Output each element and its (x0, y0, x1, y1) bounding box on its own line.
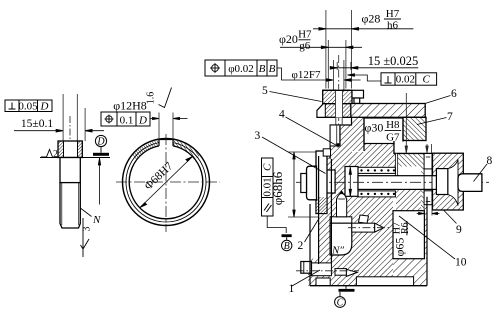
body band under phi30 window (364, 144, 394, 159)
svg-text:B: B (259, 63, 266, 75)
phi30 bore window (364, 118, 403, 144)
body band above sleeve (345, 152, 395, 167)
stud bore white slot (336, 90, 343, 118)
vertical line through plate with down arrow (405, 93, 407, 153)
svg-text:2: 2 (298, 240, 304, 252)
funnel bore white (448, 160, 458, 206)
part number labels and leaders (262, 92, 487, 287)
svg-text:D: D (40, 101, 49, 113)
shaft neck at left (327, 170, 336, 193)
body left wall (319, 156, 332, 264)
shaft end cap (307, 166, 317, 200)
svg-text:0.01: 0.01 (262, 177, 274, 196)
svg-text:C: C (337, 298, 344, 309)
screw shank (352, 223, 375, 232)
svg-text:H7: H7 (298, 29, 312, 41)
body band below lower dots row (396, 189, 423, 210)
flange upper block (323, 90, 352, 103)
svg-text:φ12F7: φ12F7 (292, 69, 321, 81)
label 1 (292, 270, 320, 286)
svg-text:1.6: 1.6 (146, 92, 157, 105)
circle centre lines (116, 181, 220, 183)
right tab (352, 90, 364, 98)
label 10 (399, 216, 455, 259)
body mass below shaft left of phi65 window (352, 197, 393, 277)
bore circle (129, 146, 203, 219)
body bottom-right mass (393, 259, 427, 286)
svg-text:g6: g6 (299, 40, 311, 52)
taper pin part4 bore (330, 125, 340, 148)
leader N (80, 208, 91, 217)
pin body (60, 158, 80, 183)
dimension 15 ±0.025 (330, 67, 418, 70)
screw9 upper extension with down arrow (426, 144, 432, 153)
body top-left outline (330, 118, 364, 159)
main axis centre line (296, 181, 489, 183)
vertical reference line with up arrow (98, 158, 100, 205)
label 5 (270, 92, 322, 102)
svg-text:1: 1 (289, 283, 295, 295)
label 7 (417, 118, 447, 125)
svg-text:C: C (262, 163, 274, 171)
label 4 (286, 117, 337, 146)
svg-text:h6: h6 (387, 20, 399, 32)
step recess right of part 7 (394, 141, 433, 154)
svg-text:H7: H7 (386, 8, 400, 20)
tolerance frame perpendicularity 0.05 D (5, 100, 52, 112)
label 3 (262, 137, 326, 174)
body upper-left block (330, 118, 364, 159)
svg-text:N: N (92, 214, 101, 226)
svg-text:H8: H8 (386, 119, 400, 131)
cap small hub (301, 174, 307, 193)
keyway hatch wedges (annulus sectors) (132, 140, 200, 160)
svg-text:φ65: φ65 (393, 238, 407, 257)
svg-text:3: 3 (255, 130, 261, 142)
stud hole lines through gap (335, 117, 337, 125)
svg-text:15 ±0.025: 15 ±0.025 (368, 54, 419, 68)
sleeve flange gap lines (394, 153, 396, 175)
outer circle (123, 139, 210, 226)
datum B (282, 234, 292, 252)
flange lower block (317, 104, 352, 118)
label 8 (474, 164, 488, 182)
svg-text:0.1: 0.1 (120, 115, 134, 127)
keyway width dimension arrows (151, 117, 188, 119)
phi65 bore window (393, 211, 424, 259)
surface mark 2 (41, 150, 53, 158)
datum D symbol (93, 135, 109, 155)
svg-text:B: B (284, 241, 290, 252)
keyway slot outline (159, 140, 173, 147)
dimension φ28 H7/h6 (313, 28, 413, 31)
knob part8 (458, 174, 482, 192)
svg-text:D: D (138, 115, 147, 127)
part 7 block (403, 117, 426, 140)
svg-text:7: 7 (447, 111, 453, 123)
surface mark 3 (rotated) (81, 218, 90, 257)
body bottom-left mass (308, 259, 334, 286)
svg-text:φ30: φ30 (365, 121, 384, 135)
svg-text:φ0.02: φ0.02 (228, 63, 254, 75)
φ65 H7/R6 label (rotated) (392, 221, 412, 257)
pin head hatched (58, 141, 82, 158)
dimension φ20 H7/g6 (280, 46, 362, 49)
label 9 (444, 210, 457, 224)
svg-text:4: 4 (279, 109, 285, 121)
dimension φ12F7 (289, 79, 361, 82)
svg-text:0.05: 0.05 (18, 101, 38, 113)
svg-text:N″: N″ (331, 245, 344, 257)
svg-text:B: B (269, 63, 276, 75)
extension lines of stud (326, 10, 352, 90)
stud centre line (338, 55, 340, 150)
bracket body (433, 153, 464, 210)
svg-text:D: D (96, 137, 105, 148)
diagonal diameter dimension Φ68H7 (140, 157, 193, 208)
sleeve diameter arrows (349, 167, 351, 196)
svg-text:10: 10 (455, 257, 467, 269)
svg-text:φ12H8: φ12H8 (113, 99, 147, 113)
extension lines above pin head (63, 94, 85, 141)
screw9 bottom width dimension (417, 206, 440, 216)
keyway slot white (159, 135, 172, 147)
svg-text:φ20: φ20 (279, 32, 298, 46)
sleeve bottom dotted row (358, 191, 395, 197)
svg-text:G7: G7 (386, 132, 400, 144)
label 2 (305, 219, 319, 242)
bushing in bracket (436, 169, 447, 195)
svg-text:0.02: 0.02 (396, 73, 415, 85)
disc part3 (316, 151, 327, 214)
keyway extension lines (159, 113, 173, 140)
phi30 H8/G7 label (365, 119, 402, 144)
body top-left step boss (323, 149, 330, 156)
chamfer circle (126, 143, 206, 222)
svg-text:φ28: φ28 (362, 12, 381, 26)
surface mark 1.6 (159, 88, 172, 108)
shaft collar (345, 167, 358, 197)
svg-text:6: 6 (451, 88, 457, 100)
tolerance frame position 0.1 D (101, 112, 150, 126)
pin centre line (69, 116, 71, 168)
svg-text:C: C (423, 73, 431, 85)
face line under head (40, 157, 110, 159)
pin threaded section (60, 183, 80, 228)
svg-text:2: 2 (53, 149, 58, 160)
part 7 outline (403, 117, 426, 140)
body right of window below step (398, 154, 423, 167)
svg-text:9: 9 (456, 224, 462, 236)
svg-text:15±0.1: 15±0.1 (21, 118, 53, 130)
shaft (358, 176, 448, 190)
datum C bottom (335, 286, 355, 309)
svg-text:8: 8 (487, 155, 493, 167)
shaft through bracket (433, 176, 447, 190)
tolerance frame perpendicularity 0.02 C (381, 73, 437, 85)
svg-text:5: 5 (262, 85, 268, 97)
label 6 (425, 96, 451, 104)
sleeve top dotted row (358, 167, 395, 173)
svg-text:3: 3 (82, 227, 93, 232)
tolerance frame position φ0.02 B B (205, 60, 277, 76)
